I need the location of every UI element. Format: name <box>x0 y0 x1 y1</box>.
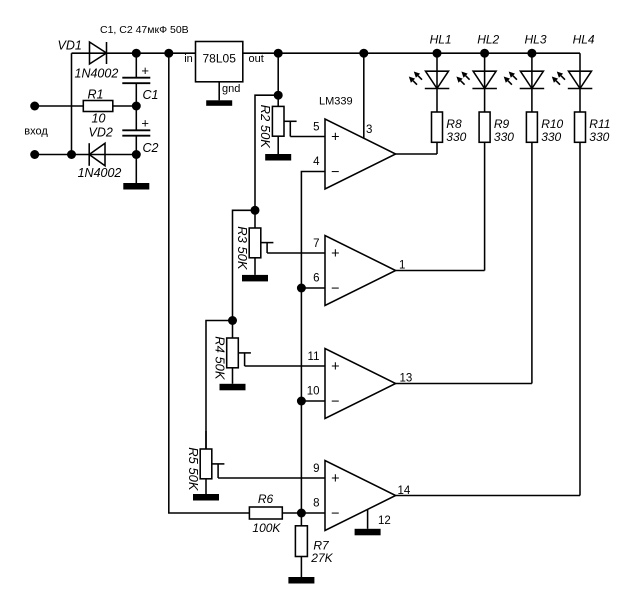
svg-text:gnd: gnd <box>222 83 240 95</box>
svg-text:3: 3 <box>366 124 372 136</box>
svg-text:VD2: VD2 <box>89 126 113 140</box>
svg-text:27K: 27K <box>310 551 333 565</box>
svg-text:+: + <box>331 471 339 487</box>
svg-text:11: 11 <box>308 351 320 363</box>
svg-text:R11: R11 <box>589 117 610 131</box>
svg-text:R5 50K: R5 50K <box>186 447 201 492</box>
svg-text:6: 6 <box>313 273 319 285</box>
svg-text:R4 50K: R4 50K <box>213 336 228 381</box>
svg-text:C1: C1 <box>143 88 159 102</box>
svg-text:78L05: 78L05 <box>203 52 237 66</box>
svg-text:+: + <box>331 246 339 262</box>
svg-text:R2 50K: R2 50K <box>258 105 273 150</box>
svg-text:HL3: HL3 <box>525 33 547 47</box>
svg-text:8: 8 <box>313 498 319 510</box>
svg-text:C2: C2 <box>143 141 159 155</box>
svg-text:HL4: HL4 <box>573 33 595 47</box>
svg-text:+: + <box>331 129 339 145</box>
svg-text:1N4002: 1N4002 <box>78 166 122 180</box>
svg-text:10: 10 <box>92 112 106 126</box>
svg-text:−: − <box>331 281 339 297</box>
svg-text:HL1: HL1 <box>430 33 452 47</box>
svg-text:330: 330 <box>446 130 466 144</box>
svg-text:R3 50K: R3 50K <box>235 226 250 271</box>
svg-text:out: out <box>249 53 264 65</box>
svg-text:R1: R1 <box>88 88 104 102</box>
svg-text:12: 12 <box>378 515 391 527</box>
svg-text:14: 14 <box>398 485 411 497</box>
svg-text:330: 330 <box>541 130 561 144</box>
svg-text:−: − <box>331 506 339 522</box>
svg-text:HL2: HL2 <box>477 33 499 47</box>
svg-text:вход: вход <box>24 125 48 137</box>
svg-text:1N4002: 1N4002 <box>75 67 119 81</box>
svg-text:330: 330 <box>589 130 609 144</box>
svg-text:R10: R10 <box>541 117 563 131</box>
svg-text:+: + <box>141 63 149 78</box>
svg-text:+: + <box>331 359 339 375</box>
svg-text:1: 1 <box>399 259 405 271</box>
svg-text:in: in <box>184 53 193 65</box>
svg-text:−: − <box>331 164 339 180</box>
svg-text:5: 5 <box>313 122 319 134</box>
svg-text:4: 4 <box>313 156 320 168</box>
svg-text:VD1: VD1 <box>58 39 82 53</box>
svg-text:10: 10 <box>307 386 320 398</box>
svg-text:−: − <box>331 394 339 410</box>
svg-text:13: 13 <box>400 372 413 384</box>
svg-text:7: 7 <box>313 238 319 250</box>
svg-text:R9: R9 <box>494 117 510 131</box>
svg-text:330: 330 <box>494 130 514 144</box>
svg-text:R8: R8 <box>446 117 462 131</box>
svg-text:R6: R6 <box>258 492 274 506</box>
svg-text:100K: 100K <box>252 521 281 535</box>
svg-text:9: 9 <box>313 463 319 475</box>
svg-text:+: + <box>141 116 149 131</box>
svg-text:LM339: LM339 <box>319 96 353 108</box>
svg-text:C1, C2 47мкФ 50В: C1, C2 47мкФ 50В <box>100 24 189 36</box>
